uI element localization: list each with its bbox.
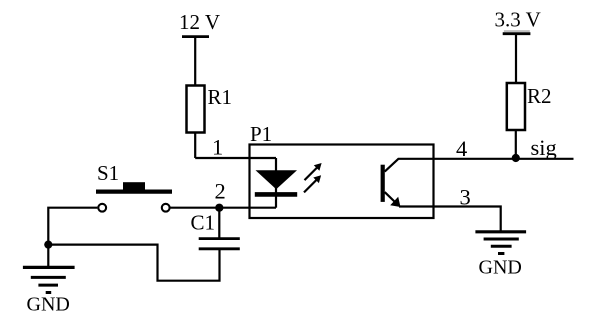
- svg-text:sig: sig: [531, 135, 557, 160]
- svg-text:P1: P1: [250, 122, 272, 146]
- svg-text:1: 1: [212, 135, 223, 160]
- svg-text:GND: GND: [479, 257, 522, 279]
- svg-text:4: 4: [456, 136, 467, 161]
- svg-text:GND: GND: [27, 294, 70, 316]
- svg-text:2: 2: [215, 179, 226, 204]
- svg-text:3.3 V: 3.3 V: [495, 8, 541, 32]
- svg-text:C1: C1: [191, 211, 216, 235]
- svg-text:R2: R2: [527, 84, 552, 108]
- svg-text:S1: S1: [97, 161, 119, 185]
- svg-text:R1: R1: [208, 85, 233, 109]
- svg-text:3: 3: [460, 184, 471, 209]
- svg-text:12 V: 12 V: [179, 10, 220, 34]
